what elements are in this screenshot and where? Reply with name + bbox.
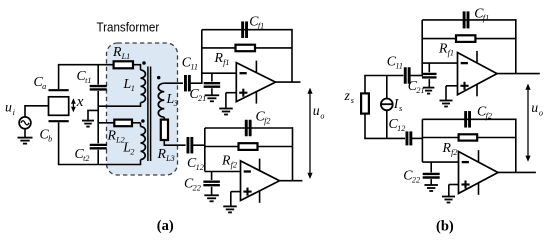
svg-text:R: R (157, 146, 167, 161)
svg-text:11: 11 (395, 62, 403, 71)
svg-text:R: R (214, 50, 224, 65)
svg-text:s: s (351, 96, 354, 105)
svg-text:22: 22 (412, 176, 420, 185)
svg-text:1: 1 (131, 84, 135, 93)
svg-text:Transformer: Transformer (97, 20, 160, 35)
svg-text:o: o (320, 111, 324, 120)
svg-text:u: u (313, 103, 320, 118)
svg-text:3: 3 (173, 99, 178, 108)
svg-text:b: b (48, 135, 52, 144)
svg-text:t1: t1 (85, 76, 91, 85)
svg-text:12: 12 (196, 163, 204, 172)
svg-text:s: s (399, 104, 402, 113)
svg-text:22: 22 (193, 184, 201, 193)
svg-text:R: R (438, 41, 448, 56)
svg-text:u: u (5, 100, 12, 115)
svg-text:L3: L3 (165, 154, 175, 163)
svg-text:f1: f1 (223, 58, 229, 67)
svg-text:12: 12 (397, 124, 405, 133)
svg-text:R: R (442, 140, 452, 155)
svg-text:21: 21 (198, 94, 206, 103)
svg-text:t2: t2 (83, 154, 89, 163)
svg-text:R: R (112, 44, 122, 59)
svg-text:z: z (344, 88, 351, 103)
svg-text:i: i (13, 108, 16, 117)
svg-text:21: 21 (416, 86, 424, 95)
svg-text:(a): (a) (157, 218, 174, 234)
svg-text:f1: f1 (448, 49, 454, 58)
svg-text:R: R (107, 128, 117, 143)
svg-text:f1: f1 (483, 14, 489, 23)
svg-text:f1: f1 (258, 21, 264, 30)
svg-text:x: x (76, 94, 84, 110)
svg-text:f2: f2 (451, 148, 457, 157)
svg-text:2: 2 (130, 148, 134, 157)
svg-text:o: o (539, 108, 543, 117)
svg-text:f2: f2 (231, 161, 237, 170)
svg-text:L1: L1 (121, 52, 131, 61)
svg-text:(b): (b) (436, 219, 454, 235)
svg-text:u: u (531, 100, 538, 115)
svg-text:a: a (42, 82, 46, 91)
svg-text:f2: f2 (264, 117, 270, 126)
svg-text:R: R (221, 153, 231, 168)
svg-text:f2: f2 (486, 112, 492, 121)
svg-text:11: 11 (190, 63, 198, 72)
